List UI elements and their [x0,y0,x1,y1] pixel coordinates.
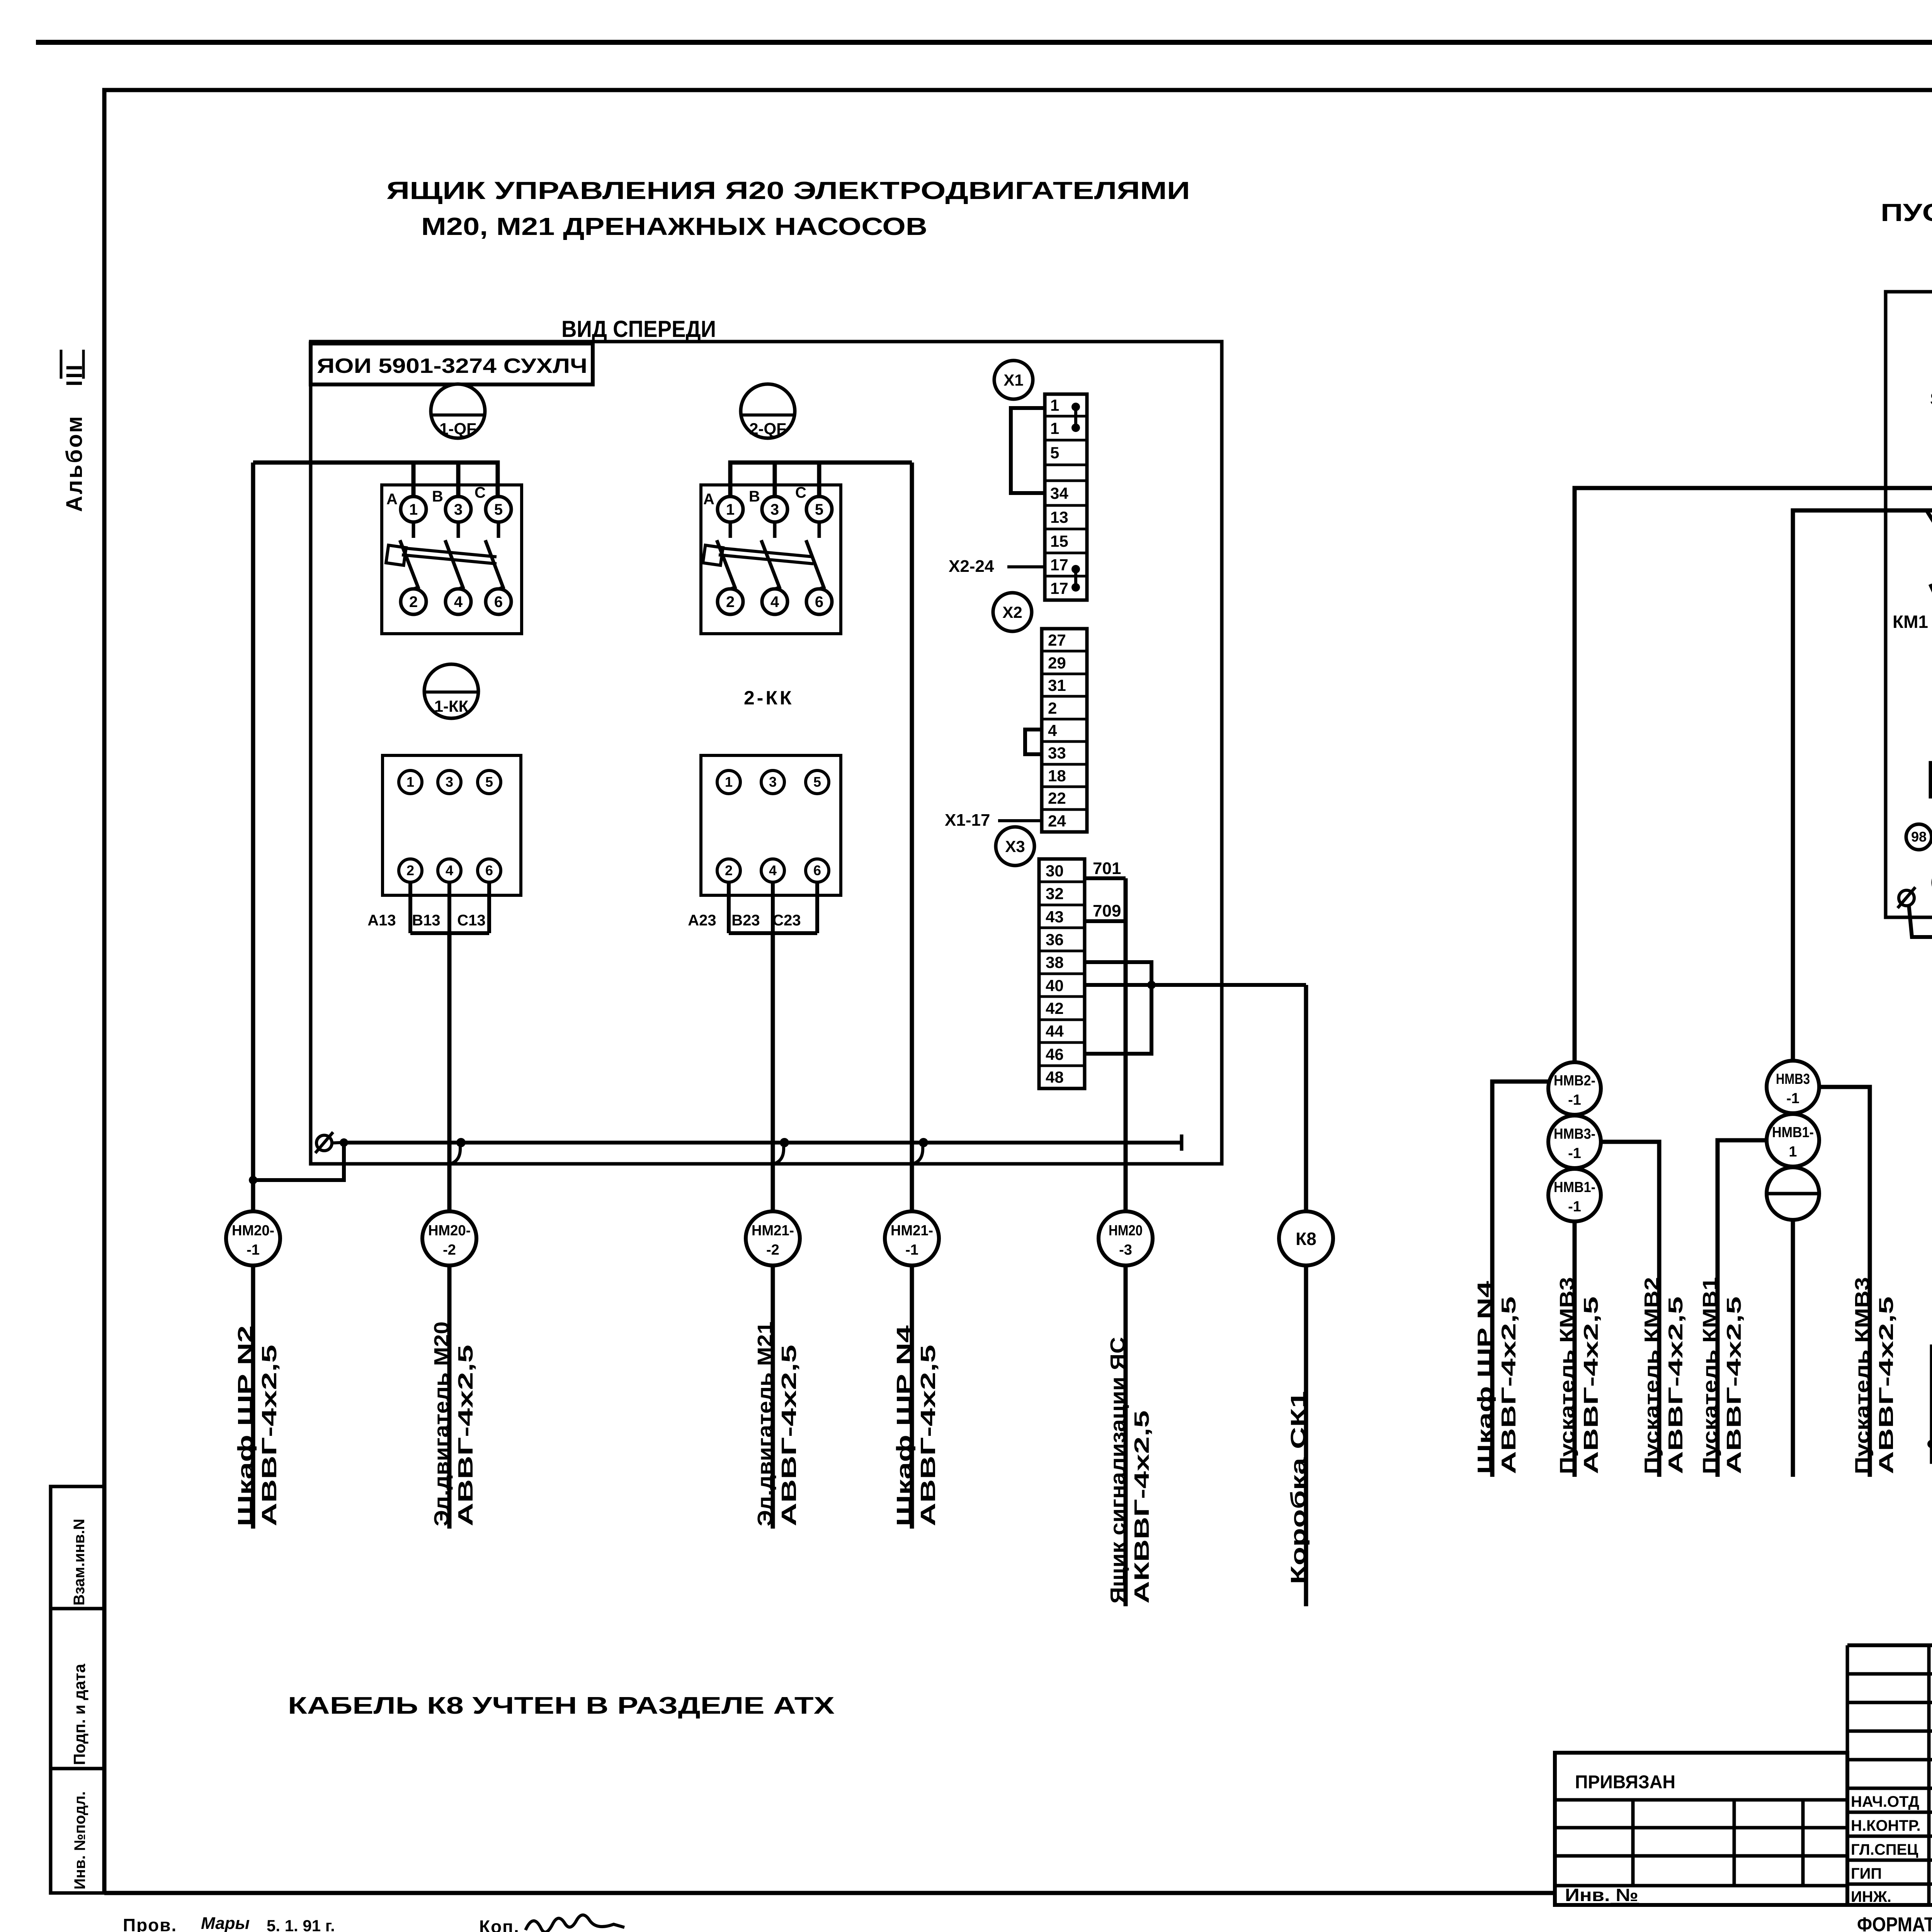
svg-text:ПРИВЯЗАН: ПРИВЯЗАН [1575,1772,1675,1793]
svg-text:33: 33 [1048,744,1066,762]
album III rotated label [61,350,87,512]
1-QF crossbar [386,545,497,565]
label X1-17 [945,811,1042,830]
svg-text:SB1: SB1 [1930,389,1932,409]
svg-text:ЯЩИК УПРАВЛЕНИЯ Я20 ЭЛЕКТРО: ЯЩИК УПРАВЛЕНИЯ Я20 ЭЛЕКТРОДВИГАТЕЛЯМИ [386,177,1190,204]
svg-text:1: 1 [1050,396,1059,414]
svg-text:30: 30 [1046,862,1064,880]
wire 40 to K8 [1085,983,1306,987]
svg-text:НМВ1-: НМВ1- [1554,1179,1595,1196]
format label [1857,1913,1932,1932]
wire bar 23 [729,931,817,935]
svg-text:4: 4 [1048,721,1057,740]
svg-text:31: 31 [1048,676,1066,694]
svg-text:2: 2 [725,862,733,878]
svg-text:С: С [795,484,806,501]
2-KK terminal 1 [717,770,740,794]
bus wire 2-QF [730,463,912,497]
svg-text:48: 48 [1046,1068,1064,1086]
svg-text:НАЧ.ОТД: НАЧ.ОТД [1851,1793,1919,1810]
junction ground-NM21-1 [913,1138,928,1164]
svg-text:С: С [474,484,486,501]
1-QF terminal 5 [486,497,511,522]
wire B13 [447,882,451,933]
svg-text:-1: -1 [1568,1199,1581,1215]
svg-text:АВВГ-4х2,5: АВВГ-4х2,5 [1498,1296,1520,1474]
svg-text:1-КК: 1-КК [434,697,469,715]
cable tag NM21-1 [885,1211,939,1265]
vid speredi label [561,316,716,342]
power bus B [1793,510,1932,1061]
svg-text:5: 5 [813,774,821,790]
svg-text:-1: -1 [1568,1092,1581,1108]
wire 701 [1085,859,1126,878]
svg-text:6: 6 [815,594,823,611]
svg-text:3: 3 [769,774,777,790]
label inv no [1565,1885,1639,1905]
svg-text:В23: В23 [731,912,760,929]
button SB1 [1930,389,1932,416]
svg-text:К8: К8 [1296,1229,1316,1249]
title block privyazan box [1555,1753,1847,1905]
svg-text:НМ20-: НМ20- [428,1223,471,1239]
cable 3 tail [771,1265,775,1529]
margin cell Vzam.inv.N [51,1486,104,1609]
svg-text:Мары: Мары [201,1914,250,1932]
1-KK terminal 4 [438,859,461,882]
cable tag NMV1-1b [1767,1114,1819,1167]
svg-text:Инв. №подл.: Инв. №подл. [71,1791,88,1889]
2-QF terminal 5 [806,497,832,522]
svg-text:46: 46 [1046,1045,1064,1063]
cable tag NMV3-1 [1548,1116,1601,1168]
svg-text:4: 4 [446,862,453,878]
1-QF pole stubs [413,522,498,538]
svg-text:1-QF: 1-QF [439,420,476,438]
X1 jumper dots 1-1 [1071,403,1080,432]
left title line 1 [386,177,1190,204]
svg-text:Эл.двигатель М20: Эл.двигатель М20 [430,1321,453,1526]
svg-text:АВВГ-4х2,5: АВВГ-4х2,5 [1665,1296,1687,1474]
svg-text:Ящик сигнализации ЯС: Ящик сигнализации ЯС [1106,1337,1129,1604]
2-QF terminal 4 [762,589,787,614]
svg-text:5: 5 [494,501,503,518]
wire C23 [815,882,819,933]
wire stack2 top right [1819,1087,1870,1477]
breaker handle 1-QF [431,384,485,438]
svg-text:32: 32 [1046,884,1064,903]
svg-text:А: А [703,491,714,508]
svg-text:Н.КОНТР.: Н.КОНТР. [1851,1817,1921,1834]
svg-text:ЯОИ 5901-3274 СУХЛЧ: ЯОИ 5901-3274 СУХЛЧ [317,354,587,378]
thermal aux contact 98-97 [1932,820,1932,849]
phase label C2 [795,484,806,501]
svg-text:-2: -2 [766,1242,779,1258]
svg-text:34: 34 [1050,484,1068,502]
note kabel K8 [288,1692,835,1719]
svg-text:4: 4 [770,594,779,611]
margin cell Inv.N podl. [51,1769,104,1893]
svg-text:-1: -1 [1568,1145,1581,1162]
label X2-24 [949,557,1045,576]
svg-text:НМВ3-: НМВ3- [1554,1126,1595,1142]
2-KK terminal 3 [761,770,784,794]
cable e label [1699,1277,1745,1474]
cable 2 label [430,1321,477,1526]
2-QF pole stubs [730,522,819,538]
svg-text:6: 6 [485,862,493,878]
thermal aux terminal 98 [1906,824,1932,850]
label B23 [731,912,760,929]
title block right frame [1555,1645,1932,1905]
sheet top border line [36,40,1932,45]
svg-text:Эл.двигатель М21: Эл.двигатель М21 [753,1321,777,1526]
svg-text:2: 2 [726,594,735,611]
svg-text:Пускатель КМВ2: Пускатель КМВ2 [1641,1277,1663,1474]
svg-text:-2: -2 [443,1242,456,1258]
panel front-view box [311,342,1222,1164]
phase label A [386,491,398,508]
ground symbol [315,1132,341,1153]
wire stack2 mid left [1718,1140,1767,1477]
svg-text:X2-24: X2-24 [949,557,994,576]
1-KK terminal 3 [438,770,461,794]
phase label B2 [749,488,760,505]
svg-text:Пров.: Пров. [123,1915,177,1932]
connector X1 designator [994,361,1033,399]
svg-text:1: 1 [1789,1144,1797,1160]
svg-text:-1: -1 [905,1242,918,1258]
svg-text:98: 98 [1911,829,1927,845]
wire shkaf to stack1 [1492,1082,1548,1477]
ground bus wire [340,1134,1182,1151]
X1 jumper dots 17-17 [1071,565,1080,592]
1-KK terminal 1 [399,770,422,794]
svg-text:Подп. и дата: Подп. и дата [70,1663,88,1765]
cable 6 label [1287,1391,1310,1584]
svg-text:5. 1. 91 г.: 5. 1. 91 г. [267,1917,335,1932]
svg-text:АВВГ-4х2,5: АВВГ-4х2,5 [1580,1296,1602,1474]
svg-text:В: В [432,488,443,505]
svg-text:42: 42 [1046,999,1064,1017]
label A23 [688,912,716,929]
breaker 1-QF box [382,485,522,634]
svg-text:НМ21-: НМ21- [752,1223,794,1239]
KM1 blade pole1 [1930,584,1932,629]
svg-text:15: 15 [1050,532,1068,550]
label B13 [412,912,440,929]
svg-text:17: 17 [1050,556,1068,574]
svg-text:АВВГ-4х2,5: АВВГ-4х2,5 [454,1345,477,1526]
cable wire NM21-2 [771,933,775,1211]
svg-text:С23: С23 [772,912,801,929]
cable wire NM20-3 [1124,878,1128,1211]
bus wire 1-QF [253,463,498,497]
2-QF blade 3 [806,540,824,589]
svg-text:1: 1 [725,774,733,790]
1-QF terminal 6 [486,589,511,614]
wire A23 [727,882,731,933]
svg-text:АВВГ-4х2,5: АВВГ-4х2,5 [1723,1296,1745,1474]
cable tag NMV3-1b [1767,1061,1819,1113]
svg-text:ГИП: ГИП [1851,1865,1882,1882]
svg-text:4: 4 [454,594,463,611]
svg-text:Коробка СК1: Коробка СК1 [1287,1391,1310,1584]
svg-text:701: 701 [1093,859,1121,878]
2-QF terminal 2 [718,589,743,614]
svg-text:А: А [386,491,398,508]
1-QF terminal 2 [401,589,426,614]
svg-text:27: 27 [1048,631,1066,649]
svg-text:АВВГ-4х2,5: АВВГ-4х2,5 [777,1345,801,1526]
margin cell Podp. i data [51,1609,104,1769]
svg-text:-1: -1 [247,1242,260,1258]
svg-text:В13: В13 [412,912,440,929]
junction ground-NM20-2 [450,1138,466,1164]
svg-text:43: 43 [1046,908,1064,926]
panel type label YaOI 5901-3274 [311,344,593,384]
cable d label [1641,1277,1687,1474]
svg-text:НМВ1-: НМВ1- [1772,1124,1814,1141]
wire stack1 mid right [1601,1142,1659,1477]
signature squiggle [526,1915,624,1932]
svg-text:АВВГ-4х2,5: АВВГ-4х2,5 [258,1345,281,1526]
svg-text:Пускатель КМВ3: Пускатель КМВ3 [1851,1277,1874,1474]
label 2-KK [744,687,794,709]
svg-text:1: 1 [409,501,418,518]
phase label C [474,484,486,501]
svg-text:3: 3 [454,501,463,518]
bus B drop L1 [1927,510,1932,544]
1-KK terminal 6 [478,859,501,882]
svg-text:3: 3 [446,774,453,790]
SKV2 ground link [1927,1425,1932,1448]
svg-text:Взам.инв.N: Взам.инв.N [71,1519,88,1605]
terminal strip X2 [1042,629,1087,832]
cable tag empty [1767,1167,1819,1220]
handwritten date [201,1914,335,1932]
relay 1-KK box [383,755,521,895]
2-QF blade 1 [717,540,735,589]
2-QF crossbar [703,545,813,565]
svg-text:ВИД СПЕРЕДИ: ВИД СПЕРЕДИ [561,316,716,342]
X2 jumper 4-33 bracket [1025,730,1042,754]
terminal strip X3 [1039,859,1085,1088]
svg-text:АВВГ-4х2,5: АВВГ-4х2,5 [917,1345,940,1526]
svg-text:Альбом: Альбом [62,415,87,512]
cable 5 tail [1124,1265,1128,1606]
1-QF terminal 1 [401,497,426,522]
svg-text:НМ21-: НМ21- [891,1223,933,1239]
svg-text:3: 3 [770,501,779,518]
wire C13 [487,882,491,933]
svg-text:13: 13 [1050,508,1068,526]
left title line 2 [421,213,927,240]
svg-text:1: 1 [1050,419,1059,437]
prov note [123,1915,177,1932]
svg-text:2: 2 [1048,699,1057,717]
svg-text:ИНЖ.: ИНЖ. [1851,1888,1891,1905]
relay handle 1-KK [424,664,478,718]
1-QF blade 3 [485,540,503,589]
ground drop wire [249,1143,344,1184]
relay 2-KK box [701,755,841,895]
signature names [1851,1793,1932,1905]
cable 2 tail [447,1265,452,1529]
2-KK terminal 4 [761,859,784,882]
wire drop 1-QF pole2 [456,463,461,496]
ground symbol starter [1898,887,1915,908]
thermal relay heater block [1930,763,1932,797]
2-QF terminal 1 [718,497,743,522]
wire drop 1-QF pole1 [412,463,416,496]
svg-text:5: 5 [815,501,823,518]
cable 1 label [234,1325,281,1526]
connector X3 designator [996,827,1034,866]
wire drop 2-QF pole3 [817,463,821,496]
wire stack1 down [1573,1221,1577,1477]
svg-text:Инв. №: Инв. № [1565,1885,1638,1905]
cable 5 label [1106,1337,1153,1604]
wire A13 [408,882,412,933]
svg-text:24: 24 [1048,812,1066,830]
svg-text:КМ1: КМ1 [1893,612,1928,632]
cable tag NM20-2 [422,1211,476,1265]
svg-text:ГЛ.СПЕЦ: ГЛ.СПЕЦ [1851,1841,1918,1858]
svg-text:ФОРМАТ А2: ФОРМАТ А2 [1857,1913,1932,1932]
svg-text:44: 44 [1046,1022,1064,1040]
signature table grid [1847,1645,1932,1905]
svg-text:КАБЕЛЬ К8 УЧТЕН В РАЗДЕЛ: КАБЕЛЬ К8 УЧТЕН В РАЗДЕЛЕ АТХ [288,1692,835,1719]
svg-text:4: 4 [769,862,777,878]
svg-text:5: 5 [1050,444,1059,462]
power bus A [1575,488,1932,1061]
svg-text:НМВ2-: НМВ2- [1554,1073,1595,1089]
label A13 [367,912,396,929]
cable wire NM20-2 [447,933,452,1211]
privyazan table rows [1555,1800,1847,1886]
svg-text:А13: А13 [367,912,396,929]
cable tag NM20-1 [226,1211,280,1265]
cable f label [1851,1277,1898,1474]
svg-text:1: 1 [406,774,414,790]
cable wire K8 [1304,985,1308,1211]
svg-text:2-КК: 2-КК [744,687,794,709]
cable tag NMV2-1 [1548,1062,1601,1115]
wire B23 [771,882,775,933]
svg-text:36: 36 [1046,930,1064,949]
1-QF blade 2 [445,540,463,589]
svg-text:Коп.: Коп. [479,1917,520,1932]
cable b label [1474,1281,1520,1474]
svg-text:X2: X2 [1002,603,1022,621]
label C13 [457,912,485,929]
svg-text:X3: X3 [1005,837,1025,855]
svg-text:Пускатель КМВ3: Пускатель КМВ3 [1556,1277,1578,1474]
svg-text:В: В [749,488,760,505]
cable 1 tail [251,1265,255,1529]
svg-text:29: 29 [1048,654,1066,672]
cable 4 tail [910,1265,914,1529]
cable 3 label [753,1321,801,1526]
svg-text:40: 40 [1046,976,1064,995]
svg-text:18: 18 [1048,767,1066,785]
phase label A2 [703,491,714,508]
2-QF blade 2 [761,540,779,589]
cable tag NMV1-1 [1548,1169,1601,1221]
2-KK terminal 2 [717,859,740,882]
wire bar 13 [410,931,489,935]
svg-text:2-QF: 2-QF [749,420,786,438]
svg-text:-1: -1 [1786,1090,1799,1107]
label C23 [772,912,801,929]
svg-text:НМ20-: НМ20- [232,1223,274,1239]
2-KK terminal 6 [806,859,829,882]
1-QF terminal 4 [446,589,471,614]
2-QF terminal 3 [762,497,787,522]
svg-text:X1: X1 [1003,371,1023,389]
breaker handle 2-QF [741,384,795,438]
svg-text:Шкаф ШР N2: Шкаф ШР N2 [234,1325,257,1526]
cable wire NM20-1 [251,463,255,1211]
2-KK terminal 5 [806,770,829,794]
1-KK terminal 2 [399,859,422,882]
connector X2 designator [993,593,1032,631]
cable c label [1556,1277,1602,1474]
wire 709 [1085,901,1126,921]
svg-text:ПУСКАТЕЛЬ КМВ2(КМВ3, КМВ1): ПУСКАТЕЛЬ КМВ2(КМВ3, КМВ1) [1881,199,1932,226]
connector SKV2 box [1932,1346,1932,1462]
svg-text:-3: -3 [1119,1242,1132,1258]
1-KK terminal 5 [478,770,501,794]
svg-text:17: 17 [1050,579,1068,597]
cable 6 tail [1304,1265,1308,1606]
ground link wire [1909,905,1932,937]
svg-text:1: 1 [726,501,735,518]
svg-text:М20, М21 ДРЕНАЖНЫХ НАСОСОВ: М20, М21 ДРЕНАЖНЫХ НАСОСОВ [421,213,927,240]
svg-text:АВВГ-4х2,5: АВВГ-4х2,5 [1875,1296,1898,1474]
junction ground-NM21-2 [774,1138,789,1164]
terminal strip X1 [1045,394,1087,600]
cable 4 label [893,1325,940,1526]
svg-text:6: 6 [813,862,821,878]
2-QF terminal 6 [806,589,832,614]
label KM1 left [1893,612,1928,632]
svg-text:X1-17: X1-17 [945,811,990,830]
svg-text:Пускатель КМВ1: Пускатель КМВ1 [1699,1277,1721,1474]
svg-text:22: 22 [1048,789,1066,807]
phase label B [432,488,443,505]
svg-text:2: 2 [409,594,418,611]
breaker 2-QF box [701,485,841,634]
1-QF blade 1 [400,540,418,589]
kop note [479,1917,520,1932]
X1 jumper 1-34 bracket [1011,408,1045,493]
svg-text:709: 709 [1093,901,1121,920]
svg-text:А23: А23 [688,912,716,929]
X3 jumper 38-46 [1085,962,1156,1054]
svg-text:38: 38 [1046,953,1064,971]
cable tag NM21-2 [746,1211,800,1265]
svg-text:НМ20: НМ20 [1109,1223,1143,1239]
svg-text:6: 6 [494,594,503,611]
wire drop 2-QF pole2 [773,463,777,496]
cable tag NM20-3 [1099,1211,1153,1265]
1-QF terminal 3 [446,497,471,522]
right title [1881,199,1932,226]
svg-text:2: 2 [406,862,414,878]
svg-text:НМВ3: НМВ3 [1776,1071,1810,1087]
